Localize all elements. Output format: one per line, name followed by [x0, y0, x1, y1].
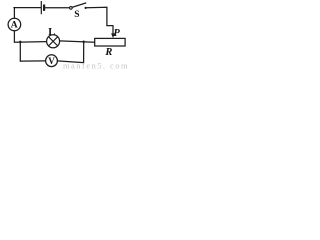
svg-text:V: V	[48, 56, 55, 66]
wire bottom left (junction to voltmeter)	[20, 60, 45, 62]
wire top-left vertical (top wire to ammeter)	[13, 8, 15, 19]
wire bottom right (voltmeter to right corner)	[57, 61, 83, 63]
wire top horizontal (left corner to battery)	[14, 7, 41, 9]
battery long plate (+)	[40, 1, 42, 14]
svg-text:L: L	[48, 27, 55, 38]
rheostat R (resistor box)	[95, 38, 125, 58]
ammeter A	[8, 18, 21, 31]
svg-text:A: A	[11, 21, 18, 31]
junction dot right (lamp/voltmeter node)	[82, 40, 85, 43]
wire voltmeter branch: left vertical drop	[19, 42, 21, 61]
svg-text:P: P	[113, 28, 120, 39]
switch right contact dot	[85, 7, 87, 9]
battery cell	[41, 1, 44, 14]
wire ammeter bottom to lamp-branch corner	[14, 31, 46, 42]
switch pivot circle	[70, 7, 73, 10]
switch S	[70, 3, 87, 20]
wire lamp right to rheostat left terminal	[60, 41, 95, 42]
lamp cross stroke 1	[49, 37, 58, 46]
voltmeter V	[46, 55, 58, 67]
svg-text:R: R	[104, 47, 112, 58]
svg-text:S: S	[74, 10, 79, 20]
wire battery to switch	[45, 7, 69, 9]
wire right vertical (lamp branch junction down to bottom wire)	[83, 42, 85, 63]
lamp L	[47, 27, 60, 48]
lamp cross stroke 2	[49, 37, 58, 46]
svg-text:manfen5. com: manfen5. com	[63, 61, 129, 71]
switch blade	[72, 3, 86, 7]
battery short plate (-)	[43, 5, 45, 11]
slider arrow P (wiper onto rheostat)	[111, 26, 120, 40]
wire switch contact to top-right corner, down, and jog right	[86, 7, 113, 25]
junction dot left (lamp/voltmeter node)	[19, 41, 22, 44]
